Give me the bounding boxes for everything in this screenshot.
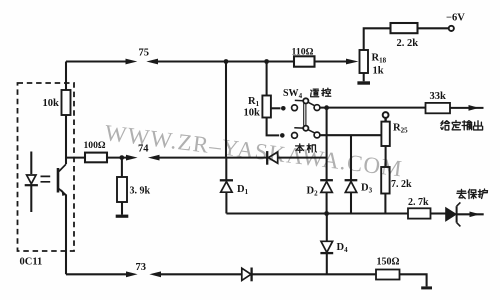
switch blade top xyxy=(295,100,315,105)
switch link bars xyxy=(304,103,306,126)
zener diode to protection xyxy=(446,202,461,226)
node junction at 121.8 on 74 rail xyxy=(119,155,124,160)
node junction at 326.6 on 33k rail xyxy=(324,105,329,110)
wire 75 rail left segment xyxy=(66,60,126,62)
wire diode to D2 branch xyxy=(278,157,327,159)
node junction at x=266.5 on 75 rail xyxy=(264,59,269,64)
wire vertical from node 266 to pot R1 xyxy=(266,62,268,96)
wire 7.2k to bottom rail xyxy=(384,194,386,214)
label 机 of 本机 xyxy=(307,144,316,153)
label 输 of 给定输出 xyxy=(462,121,472,130)
resistor 33k xyxy=(426,103,451,113)
transistor collector stroke xyxy=(59,164,66,171)
wire R1 bottom to switch xyxy=(267,118,280,136)
switch pivot circle top xyxy=(303,98,308,103)
label 护 of 去保护 xyxy=(478,189,487,198)
switch SW4 contact top-left xyxy=(292,105,298,111)
svg-text:R25: R25 xyxy=(393,123,408,135)
resistor 3.9k xyxy=(117,177,127,202)
node junction at x=226 on 75 rail xyxy=(224,59,229,64)
LED cathode wire xyxy=(30,185,32,212)
arrow output xyxy=(469,105,480,111)
stub circle to R25 xyxy=(384,118,386,122)
svg-text:3. 9k: 3. 9k xyxy=(130,186,151,197)
potentiometer R1 10k xyxy=(262,96,271,118)
wire 75 rail right segment xyxy=(158,60,294,62)
resistor 2.2k xyxy=(391,23,418,33)
svg-text:D3: D3 xyxy=(361,183,373,195)
diode in 73 rail pointing right xyxy=(242,268,252,282)
wire switch bottom-right to R25 tap xyxy=(320,134,382,136)
svg-text:10k: 10k xyxy=(244,108,261,119)
node junction at 326.6 bottom rail xyxy=(324,211,329,216)
diode D2 xyxy=(320,180,333,213)
wire emitter down to 73 rail xyxy=(65,195,67,275)
wire 150ohm to end ground xyxy=(400,274,427,286)
ground bar at end xyxy=(421,286,432,289)
arrow right on 75 rail xyxy=(126,59,138,65)
resistor R25 xyxy=(381,122,389,146)
wire 73 rail left segment xyxy=(66,273,126,275)
wire D4 branch down xyxy=(326,214,328,242)
svg-text:D2: D2 xyxy=(307,186,319,198)
svg-text:WWW.ZR–YASKAWA.COM: WWW.ZR–YASKAWA.COM xyxy=(103,120,404,181)
arrow left on 73 rail xyxy=(149,271,161,277)
svg-text:1k: 1k xyxy=(373,66,384,77)
diode in 74 rail pointing left xyxy=(267,151,278,165)
transistor emitter stroke xyxy=(59,189,66,195)
switch SW4 contact bottom-left xyxy=(292,133,298,139)
svg-text:110Ω: 110Ω xyxy=(292,47,314,58)
label 遥 of 遥控 xyxy=(311,89,319,97)
wire zener to arrow xyxy=(457,213,484,215)
label 控 of 遥控 xyxy=(322,88,331,96)
svg-text:33k: 33k xyxy=(430,91,447,102)
wire switch top-right to 33k rail xyxy=(320,107,426,109)
switch blade bottom xyxy=(294,128,314,133)
svg-text:D1: D1 xyxy=(237,184,249,196)
label 本 of 本机 xyxy=(296,144,304,153)
wire 74 rail to diode xyxy=(160,157,268,159)
resistor 150ohm xyxy=(376,270,400,280)
arrow into R18 xyxy=(346,59,359,65)
resistor 100ohm xyxy=(85,153,107,163)
watermark WWW.ZR-YASKAWA.COM xyxy=(103,120,404,181)
resistor 7.2k xyxy=(381,167,389,194)
resistor 10k inside box xyxy=(62,90,71,115)
wire R18 bottom to ground xyxy=(363,73,365,81)
wire down from node 121.8 to 3.9k xyxy=(121,158,123,177)
switch SW4 contact bottom-right xyxy=(314,132,320,138)
wire D3 branch vertical xyxy=(350,135,352,179)
wire 100ohm to arrow xyxy=(107,157,126,159)
transistor base bar xyxy=(57,168,60,193)
svg-text:R18: R18 xyxy=(372,53,387,65)
svg-text:R1: R1 xyxy=(248,96,260,108)
terminal -6V circle xyxy=(449,26,454,31)
svg-text:10k: 10k xyxy=(43,98,60,109)
label 保 of 去保护 xyxy=(468,189,477,198)
arrow to protection xyxy=(470,212,481,218)
wire 73 rail to diode xyxy=(161,273,242,275)
label 出 of 给定输出 xyxy=(474,121,483,130)
resistor 110ohm xyxy=(294,56,315,66)
ground under 3.9k xyxy=(116,215,129,218)
wire vertical from node 226 down to 74 rail xyxy=(225,62,227,158)
resistor 2.7k xyxy=(408,208,431,218)
svg-text:D4: D4 xyxy=(337,242,349,254)
svg-text:−6V: −6V xyxy=(446,13,465,24)
arrow right on 74 rail xyxy=(126,155,138,161)
diode D4 xyxy=(320,241,333,274)
optocoupler dashed box 0C11 xyxy=(18,83,75,251)
wire 10k to transistor collector xyxy=(65,115,67,164)
emitter arrowhead xyxy=(62,189,67,196)
terminal circle R25 xyxy=(383,112,389,118)
switch pivot circle bottom xyxy=(303,126,308,131)
label 给 of 给定输出 xyxy=(441,121,450,130)
svg-text:100Ω: 100Ω xyxy=(84,140,106,151)
bottom rail xyxy=(226,212,408,214)
diode D3 xyxy=(345,180,358,213)
resistor R18 1k xyxy=(360,50,369,73)
LED cathode bar xyxy=(25,184,38,186)
wire 2.7k to zener xyxy=(431,212,446,214)
wire corner into box xyxy=(65,62,67,91)
wire R25 to 7.2k xyxy=(385,146,387,167)
arrow dot at bottom pole feed xyxy=(280,133,285,138)
svg-text:74: 74 xyxy=(138,144,149,155)
arrow left on 75 rail xyxy=(146,59,158,65)
svg-text:75: 75 xyxy=(139,48,150,59)
wiper wire of R1 xyxy=(271,107,281,109)
svg-text:SW4: SW4 xyxy=(283,88,303,100)
wire vertical from 74 rail down to D1 xyxy=(225,158,227,180)
LED anode wire xyxy=(30,152,32,175)
wire 33k to output xyxy=(450,107,484,109)
arrow left on 74 rail xyxy=(148,155,160,161)
arrow right on 73 rail xyxy=(126,271,138,277)
ground under R18 xyxy=(357,81,370,84)
svg-text:73: 73 xyxy=(136,262,147,273)
wire 3.9k to ground xyxy=(121,202,123,215)
wire 110ohm to R18 xyxy=(315,60,347,62)
label 定 of 给定输出 xyxy=(452,121,460,130)
diode D1 xyxy=(220,180,233,213)
svg-text:0C11: 0C11 xyxy=(20,257,43,268)
wire diode to 150ohm xyxy=(252,273,376,275)
label 去 of 去保护 xyxy=(457,189,466,198)
svg-text:150Ω: 150Ω xyxy=(377,257,400,268)
wire 74 rail from transistor to 100ohm xyxy=(66,157,85,159)
wiper arrow dot xyxy=(281,106,286,111)
wire D2 branch vertical xyxy=(326,108,328,180)
LED triangle xyxy=(27,175,36,184)
svg-text:7. 2k: 7. 2k xyxy=(391,179,412,190)
switch SW4 contact top-right xyxy=(314,105,320,111)
wire R18 top to 2.2k xyxy=(364,28,391,50)
wire 2.2k to -6V terminal xyxy=(418,27,449,29)
svg-text:2. 2k: 2. 2k xyxy=(397,38,419,49)
svg-text:2. 7k: 2. 7k xyxy=(408,197,429,208)
light coupling bars xyxy=(41,176,51,181)
